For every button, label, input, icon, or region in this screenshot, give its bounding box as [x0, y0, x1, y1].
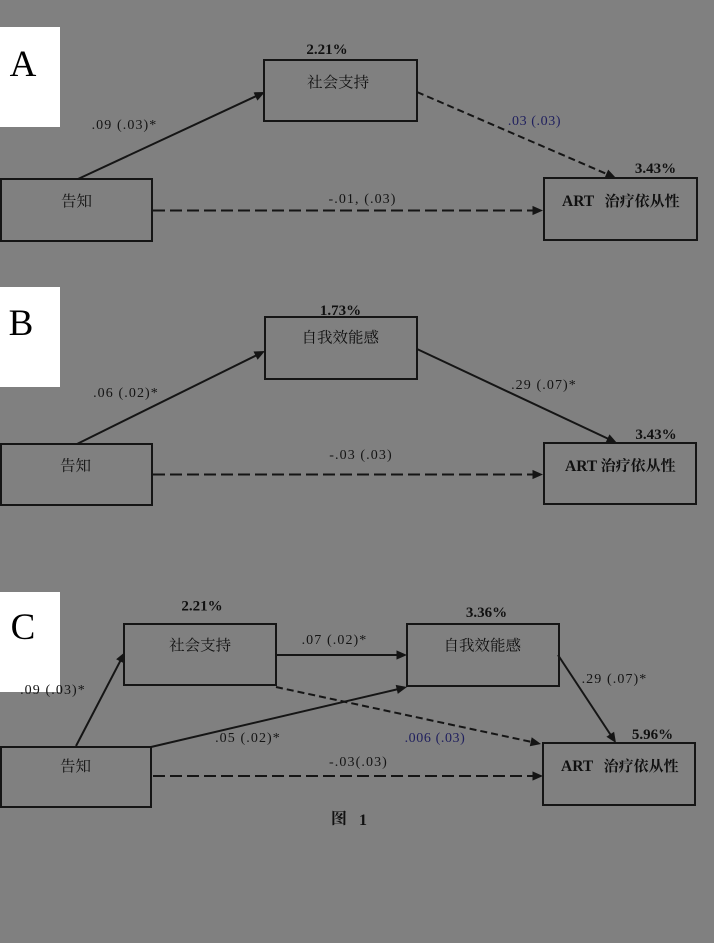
- svg-text:ART: ART: [561, 758, 594, 775]
- svg-text:.03 (.03): .03 (.03): [508, 114, 561, 129]
- arrow ziwo->ART C: [558, 655, 613, 738]
- svg-text:2.21%: 2.21%: [306, 42, 347, 58]
- arrow gaozhi->ziwo C: [151, 688, 401, 747]
- label ART B cjk: [601, 458, 675, 472]
- svg-text:3.43%: 3.43%: [635, 161, 676, 177]
- box ziwo-xiaonenggan B: [265, 317, 417, 379]
- label ziwo C: [447, 638, 521, 652]
- arrow gaozhi->ART A dashed: [153, 210, 537, 212]
- svg-text:.09 (.03)*: .09 (.03)*: [20, 683, 86, 698]
- label ART C cjk: [604, 758, 678, 772]
- panel label plate A: [0, 27, 60, 127]
- svg-text:A: A: [10, 44, 37, 85]
- panel label plate B: [0, 287, 60, 387]
- svg-text:-.03 (.03): -.03 (.03): [329, 448, 393, 463]
- arrow gaozhi->shehui C: [76, 657, 122, 746]
- box shehui-zhichi C: [124, 624, 276, 685]
- label shehui-zhichi A: [307, 75, 368, 89]
- svg-text:.06 (.02)*: .06 (.02)*: [93, 386, 159, 401]
- arrow gaozhi->ART C dashed: [153, 775, 537, 777]
- box ART A: [544, 178, 697, 240]
- svg-text:5.96%: 5.96%: [632, 727, 673, 743]
- label shehui C: [169, 638, 230, 652]
- arrow gaozhi->ziwo B: [77, 354, 260, 444]
- label gaozhi B: [61, 458, 91, 472]
- svg-text:2.21%: 2.21%: [181, 599, 222, 615]
- label gaozhi A: [62, 194, 92, 208]
- svg-text:ART: ART: [565, 458, 598, 475]
- svg-text:B: B: [9, 303, 34, 344]
- arrow shehui->ziwo C: [276, 654, 401, 656]
- arrow ziwo->ART B: [417, 349, 612, 440]
- label ziwo B: [305, 330, 379, 344]
- svg-text:ART: ART: [562, 193, 595, 210]
- box shehui-zhichi A: [264, 60, 417, 121]
- label ART A cjk: [605, 193, 679, 207]
- box gaozhi B: [1, 444, 152, 505]
- svg-text:3.36%: 3.36%: [466, 605, 507, 621]
- svg-text:-.03(.03): -.03(.03): [329, 755, 388, 770]
- svg-text:.006 (.03): .006 (.03): [405, 731, 466, 746]
- svg-text:.09 (.03)*: .09 (.03)*: [92, 118, 158, 133]
- svg-text:1.73%: 1.73%: [320, 303, 361, 319]
- caption tu-1 cjk: [332, 810, 346, 825]
- svg-text:1: 1: [359, 812, 367, 829]
- svg-text:.05 (.02)*: .05 (.02)*: [215, 731, 281, 746]
- box ziwo-xiaonenggan C: [407, 624, 559, 686]
- arrow shehui->ART A dashed: [417, 92, 611, 176]
- svg-text:3.43%: 3.43%: [635, 427, 676, 443]
- svg-text:.29 (.07)*: .29 (.07)*: [582, 672, 648, 687]
- svg-text:C: C: [11, 607, 36, 648]
- svg-text:.29 (.07)*: .29 (.07)*: [511, 378, 577, 393]
- box gaozhi C: [1, 747, 151, 807]
- arrow shehui->ART C dashed: [276, 687, 535, 743]
- box ART B: [544, 443, 696, 504]
- arrow gaozhi->ART B dashed: [153, 474, 537, 476]
- label gaozhi C: [61, 759, 91, 773]
- svg-text:.07 (.02)*: .07 (.02)*: [302, 633, 368, 648]
- panel label plate C: [0, 592, 60, 692]
- box ART C: [543, 743, 695, 805]
- svg-text:-.01, (.03): -.01, (.03): [328, 192, 396, 207]
- box gaozhi A: [1, 179, 152, 241]
- arrow gaozhi->shehui A: [78, 95, 260, 180]
